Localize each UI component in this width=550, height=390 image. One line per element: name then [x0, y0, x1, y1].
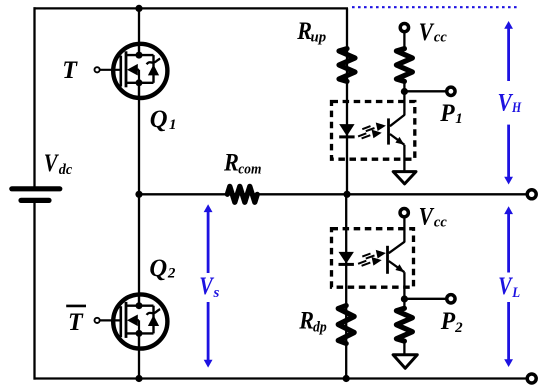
light arrows U1	[358, 124, 384, 138]
wire: left vertical lower	[33, 203, 35, 380]
resistor Rup (vertical)	[339, 49, 355, 82]
svg-text:2: 2	[167, 265, 176, 281]
LED D1	[339, 124, 354, 137]
terminal T (gate of Q1)	[95, 67, 100, 72]
battery Vdc long plate	[12, 186, 60, 191]
svg-text:R: R	[298, 308, 314, 335]
svg-text:T: T	[68, 309, 84, 336]
terminal: mid rail output	[527, 190, 536, 199]
wire: left vertical upper	[33, 7, 35, 186]
wire: Rup branch vertical	[346, 8, 348, 194]
wire: node to P1	[404, 90, 445, 92]
svg-text:dc: dc	[59, 162, 73, 178]
svg-text:cc: cc	[434, 215, 447, 231]
svg-text:P: P	[440, 308, 456, 335]
svg-text:s: s	[213, 285, 220, 301]
optocoupler U2 dashed box	[332, 229, 414, 288]
junction dot: mid rail / opto branch	[343, 191, 350, 198]
LED D2	[339, 252, 354, 265]
svg-text:2: 2	[454, 320, 463, 336]
wire: top rail	[34, 7, 349, 9]
svg-text:V: V	[419, 204, 435, 231]
terminal P1	[447, 87, 455, 95]
svg-text:V: V	[419, 19, 435, 46]
transistor Q1 (MOSFET with body diode)	[100, 43, 167, 99]
junction dot P1 node	[401, 88, 408, 95]
light arrows U2	[358, 251, 384, 265]
svg-text:1: 1	[169, 117, 177, 133]
arrow Vs upper	[204, 204, 213, 273]
svg-text:Q: Q	[150, 106, 168, 133]
svg-text:R: R	[223, 150, 239, 177]
terminal Vcc (lower)	[400, 209, 408, 217]
wire: mid output rail	[139, 193, 528, 195]
svg-text:cc: cc	[434, 30, 447, 46]
svg-text:P: P	[439, 100, 455, 127]
resistor (pull-down)	[396, 308, 412, 341]
junction dot: top rail / Q1 drain	[135, 5, 142, 12]
transistor Q2 (MOSFET with body diode)	[100, 294, 167, 350]
svg-text:com: com	[238, 162, 261, 178]
svg-text:Q: Q	[149, 255, 167, 282]
wire: half-bridge vertical	[138, 8, 140, 378]
wire: Vcc1 to resistor	[403, 33, 405, 51]
phototransistor U1	[389, 92, 405, 172]
wire: node to P2	[404, 298, 445, 300]
resistor Rcom (horizontal)	[227, 186, 257, 202]
arrow VH upper	[504, 21, 513, 81]
terminal: bottom rail output	[527, 374, 536, 383]
arrow VL lower	[504, 302, 513, 367]
junction dot: bottom rail / Q2 source	[135, 375, 142, 382]
arrow VH lower	[504, 125, 513, 185]
wire: Rdp branch vertical	[345, 194, 347, 378]
wire: bottom rail	[34, 377, 529, 379]
svg-text:dp: dp	[313, 319, 327, 335]
terminal P2	[447, 295, 455, 303]
junction dot P2 node	[401, 295, 408, 302]
ground (lower)	[393, 355, 417, 369]
junction dot: bottom rail / Rdp	[343, 375, 350, 382]
phototransistor U2	[388, 218, 405, 300]
svg-text:up: up	[311, 29, 327, 45]
svg-text:1: 1	[455, 111, 463, 127]
terminal T-bar (gate of Q2)	[95, 318, 100, 323]
blue dotted reference line	[352, 6, 520, 8]
wire: node2 down to resistor and ground	[403, 299, 405, 310]
svg-text:T: T	[62, 57, 78, 84]
junction dot: mid rail / Q1-Q2	[135, 191, 142, 198]
arrow VL upper	[504, 206, 513, 272]
svg-text:H: H	[511, 100, 522, 116]
svg-text:V: V	[44, 150, 60, 177]
resistor (Vcc pull-up)	[396, 49, 412, 82]
battery Vdc short plate	[21, 198, 49, 203]
svg-text:L: L	[511, 285, 520, 301]
ground (upper)	[393, 172, 416, 184]
resistor Rdp (vertical)	[338, 306, 354, 344]
svg-text:V: V	[199, 273, 214, 300]
optocoupler U1 dashed box	[332, 102, 415, 160]
terminal Vcc (upper)	[400, 23, 408, 31]
arrow Vs lower	[204, 302, 213, 368]
svg-text:V: V	[498, 273, 513, 300]
